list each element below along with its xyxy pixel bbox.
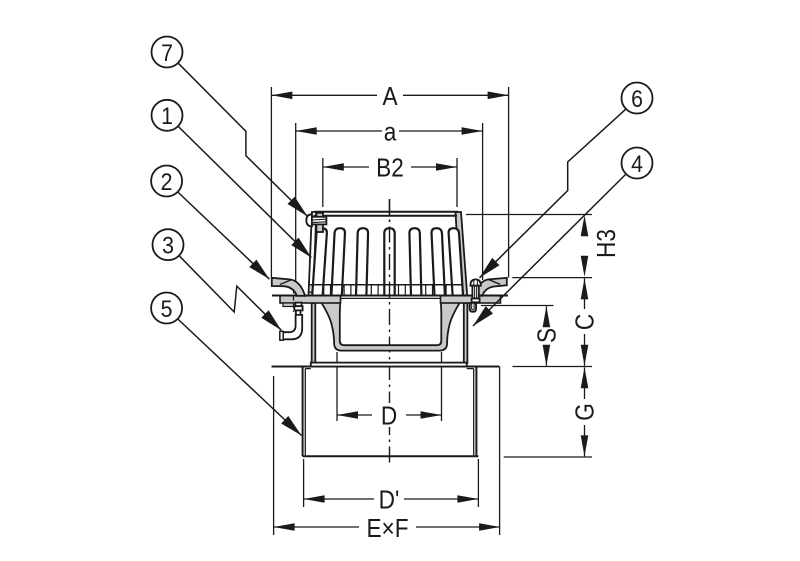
leader 4: [473, 174, 626, 326]
balloon 2: [151, 166, 182, 197]
centerline: [389, 199, 391, 465]
dome foot tab right: [470, 303, 476, 312]
svg-text:C: C: [571, 314, 600, 330]
svg-text:6: 6: [631, 84, 643, 112]
svg-text:3: 3: [162, 231, 174, 259]
svg-text:G: G: [571, 403, 600, 421]
gravel stop wing right: [474, 278, 507, 296]
strainer dome top rim: [314, 212, 459, 216]
overflow elbow (part 3): [280, 315, 302, 340]
extension lines A: [271, 87, 508, 278]
balloon 7: [152, 37, 183, 68]
strainer ring top line: [310, 284, 463, 286]
slab opening edge left: [273, 376, 275, 535]
slab opening edge right: [499, 367, 501, 536]
dome lug top left: [316, 213, 323, 232]
clamp bolt left: [283, 289, 303, 315]
svg-text:5: 5: [161, 294, 173, 322]
reference line pipe bottom right: [504, 456, 592, 458]
svg-text:E×F: E×F: [366, 514, 408, 543]
funnel mouth back rim: [340, 297, 440, 299]
reference line gravel stop bottom: [481, 305, 554, 307]
sleeve bottom flange: [311, 363, 467, 367]
balloon 1: [152, 100, 183, 131]
balloon 6: [622, 83, 653, 114]
dimension D: [337, 402, 442, 431]
strainer slots: [312, 228, 463, 295]
drain body funnel: [317, 296, 464, 351]
dimension C: [571, 278, 600, 365]
leader 1: [178, 126, 311, 257]
dimension Dprime: [304, 486, 479, 515]
svg-text:D: D: [381, 402, 397, 431]
svg-text:a: a: [384, 118, 397, 147]
balloon 3: [153, 229, 184, 260]
balloon 4: [622, 148, 653, 179]
reference line dome top right: [466, 214, 592, 216]
flange top edge: [272, 295, 508, 297]
flange top line over strainer feet: [306, 295, 483, 297]
sleeve wall left: [312, 303, 316, 363]
extension lines Dprime: [304, 459, 479, 507]
svg-text:S: S: [533, 328, 562, 343]
dimension G: [571, 367, 600, 456]
clamp bolt right (part 6): [470, 279, 480, 302]
dimension a: [296, 118, 483, 147]
strainer dome left wall: [309, 212, 317, 296]
leader 3: [179, 256, 281, 331]
extension lines B2: [323, 158, 457, 207]
extension lines a: [296, 123, 483, 285]
strainer dome right wall: [456, 212, 468, 296]
gravel stop wing left (part 2): [272, 278, 305, 296]
dimension B2: [323, 154, 457, 183]
balloon 5: [151, 293, 182, 324]
strainer lower ring: [310, 285, 463, 296]
securing screw (part 7): [306, 214, 326, 226]
svg-text:7: 7: [161, 38, 173, 66]
dimension H3: [581, 215, 622, 276]
dimension S: [533, 306, 562, 365]
leader 7: [178, 63, 307, 216]
centerline over dome: [389, 199, 391, 298]
svg-text:A: A: [382, 82, 398, 111]
svg-text:2: 2: [161, 167, 173, 195]
reference line flange top right: [512, 277, 592, 279]
extension lines D: [337, 352, 442, 421]
leader 5: [178, 319, 302, 436]
leader 6: [480, 109, 626, 278]
roof deck surface line: [272, 366, 593, 368]
drain pipe: [303, 367, 479, 456]
dimension ExF: [274, 514, 501, 543]
sleeve wall right: [464, 303, 468, 363]
svg-text:B2: B2: [376, 154, 404, 183]
svg-text:4: 4: [631, 149, 643, 177]
dimension A: [271, 82, 508, 111]
drain body flange plate: [280, 296, 501, 303]
svg-text:1: 1: [161, 102, 173, 130]
svg-text:H3: H3: [593, 229, 622, 258]
svg-text:D': D': [379, 486, 400, 515]
leader 2: [178, 192, 270, 279]
